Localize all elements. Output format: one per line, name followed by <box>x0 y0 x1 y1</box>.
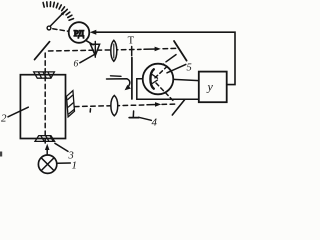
upper beam dashed <box>49 49 142 51</box>
feedback wire <box>95 32 236 84</box>
svg-text:РД: РД <box>74 28 84 38</box>
detector housing <box>137 79 199 100</box>
label 3 pointer <box>55 143 68 151</box>
vertical beam dashed <box>44 53 46 143</box>
lower lens <box>111 95 118 115</box>
wire detector to amplifier <box>174 79 199 80</box>
scan speck <box>0 152 2 157</box>
svg-text:2: 2 <box>1 113 7 125</box>
upper beam arrow <box>144 48 157 50</box>
label 4 pointer <box>139 117 152 120</box>
svg-text:5: 5 <box>187 63 192 74</box>
link motor to wedge <box>87 41 94 45</box>
motor RD circle <box>69 22 90 43</box>
label 6 pointer <box>80 55 94 63</box>
svg-text:6: 6 <box>74 60 79 70</box>
photocathode <box>150 69 153 88</box>
needle pivot <box>47 26 51 30</box>
upper right mirror <box>174 41 187 61</box>
bottom right mirror <box>172 100 184 115</box>
label 1 pointer <box>58 162 71 164</box>
left mirror <box>35 42 50 60</box>
reflected beam to detector dashed <box>166 55 176 62</box>
shutter plate T <box>131 47 133 56</box>
cell 2 rectangle <box>20 75 65 139</box>
svg-text:у: у <box>207 80 214 94</box>
meter needle <box>49 12 65 28</box>
svg-text:4: 4 <box>152 117 158 129</box>
svg-text:1: 1 <box>72 159 78 171</box>
label 5 pointer <box>167 64 186 72</box>
shutter foot 4 <box>132 111 134 117</box>
amplifier box U <box>199 72 227 103</box>
upper lens <box>111 40 117 61</box>
dashed link pivot to motor <box>53 29 68 31</box>
svg-text:Т: Т <box>128 35 135 46</box>
cell top window <box>34 72 55 78</box>
detector 5 circle <box>143 64 174 95</box>
label 2 pointer <box>8 107 28 117</box>
lower beam dashed <box>75 105 145 107</box>
beam inside detector dashed <box>155 67 167 78</box>
meter scale ticks <box>43 2 73 21</box>
lamp arrow up <box>46 147 48 155</box>
lower beam small tick <box>89 109 91 112</box>
lamp 1 <box>38 155 56 173</box>
cell bottom window 3 <box>35 136 55 142</box>
cell right window <box>67 91 75 117</box>
lower beam arrow <box>147 104 157 106</box>
wedge 6 <box>90 44 99 55</box>
hook arrow at plate <box>111 75 122 78</box>
